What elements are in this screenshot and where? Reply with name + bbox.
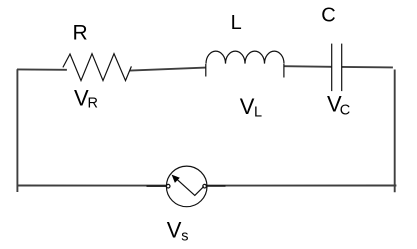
svg-text:s: s bbox=[181, 228, 188, 244]
svg-text:C: C bbox=[340, 102, 350, 118]
svg-text:R: R bbox=[73, 21, 88, 44]
svg-text:V: V bbox=[167, 218, 182, 243]
svg-text:L: L bbox=[254, 104, 262, 120]
svg-text:L: L bbox=[231, 12, 242, 34]
svg-text:C: C bbox=[321, 4, 335, 26]
svg-text:R: R bbox=[88, 96, 98, 112]
svg-text:V: V bbox=[240, 94, 255, 119]
